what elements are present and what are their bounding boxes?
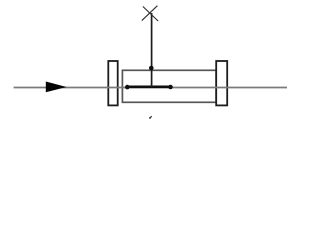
flow arrow on main line — [46, 82, 67, 93]
node: left junction dot — [125, 85, 130, 90]
left flange — [108, 61, 117, 105]
tick mark blob end — [149, 117, 151, 119]
node: top junction dot on box edge — [149, 66, 154, 71]
X terminal symbol (diagonal 1) — [143, 7, 158, 22]
wire: main horizontal line — [14, 87, 287, 89]
X terminal symbol (diagonal 2) — [142, 6, 158, 21]
wire: thick segment inside box — [127, 86, 170, 89]
body box (valve body between flanges) — [122, 70, 216, 102]
right flange — [216, 61, 227, 105]
tick mark below box — [150, 116, 152, 118]
wire: vertical stem — [151, 13, 153, 88]
node: right junction dot — [168, 85, 173, 90]
